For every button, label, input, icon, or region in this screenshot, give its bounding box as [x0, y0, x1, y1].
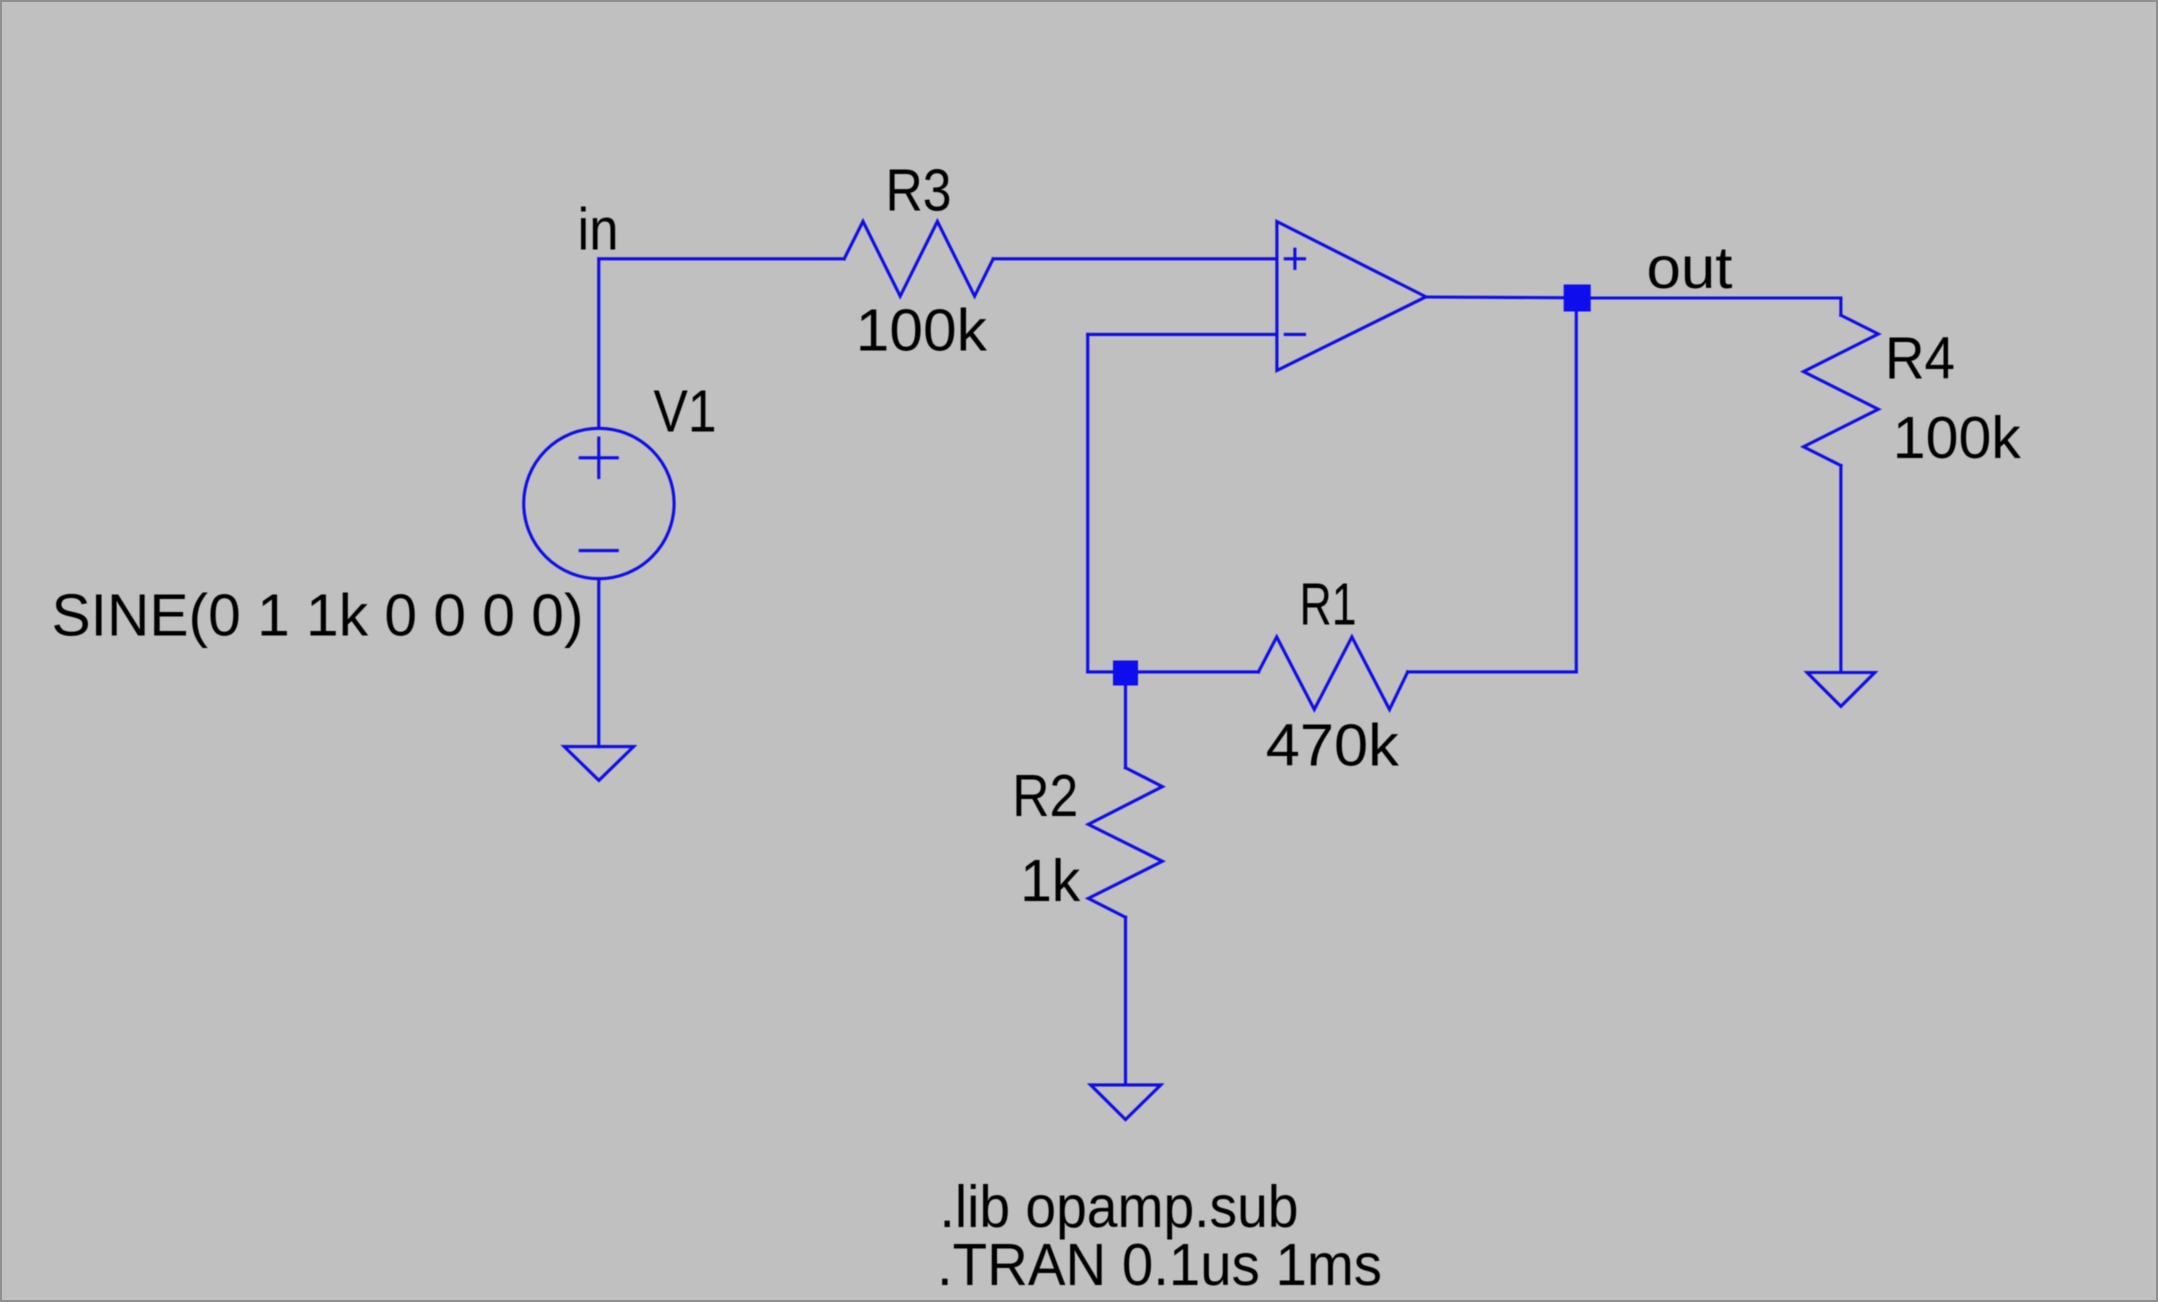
svg-text:out: out — [1647, 234, 1733, 301]
node out junction square — [1564, 285, 1591, 312]
svg-text:1k: 1k — [1020, 847, 1080, 914]
wire node A down to R2 top — [1124, 673, 1127, 768]
op-amp - input marking — [1285, 333, 1304, 336]
wire V1 bottom to ground — [597, 579, 600, 747]
resistor R3 body — [844, 221, 993, 296]
wire R2 bottom to ground — [1124, 917, 1127, 1085]
wire R1 right lead to out vertical — [1408, 670, 1577, 673]
svg-text:R4: R4 — [1885, 324, 1955, 391]
wire op-amp output to out node — [1426, 295, 1576, 299]
ground (below R2) — [1091, 1085, 1161, 1120]
wire R3 to op-amp + input — [993, 257, 1277, 260]
wire in horizontal (node in to R3 left lead) — [599, 257, 844, 260]
svg-text:R2: R2 — [1012, 762, 1078, 829]
wire in vertical (node in down to V1 top) — [597, 259, 600, 429]
wire R4 bottom to ground — [1839, 466, 1842, 673]
svg-text:SINE(0 1 1k 0 0 0 0): SINE(0 1 1k 0 0 0 0) — [52, 582, 584, 649]
svg-text:R1: R1 — [1300, 570, 1357, 637]
svg-text:.TRAN 0.1us 1ms: .TRAN 0.1us 1ms — [937, 1231, 1382, 1298]
op-amp + input marking — [1285, 257, 1304, 260]
wire feedback to node A — [1088, 670, 1259, 673]
svg-text:R3: R3 — [886, 157, 952, 224]
svg-text:470k: 470k — [1266, 711, 1399, 778]
V1 minus sign — [580, 549, 617, 552]
svg-text:in: in — [578, 195, 619, 262]
wire out vertical (out node down to R1) — [1575, 298, 1578, 672]
resistor R1 body — [1259, 637, 1408, 710]
wire op-amp inverting input — [1088, 333, 1277, 336]
V1 plus sign — [580, 456, 617, 459]
node A junction square — [1113, 661, 1138, 686]
op-amp U1 triangle — [1277, 222, 1426, 371]
ground (below V1) — [564, 747, 633, 781]
wire R4 top lead — [1839, 298, 1842, 315]
resistor R2 body — [1088, 768, 1162, 918]
voltage source V1 circle — [524, 428, 674, 578]
svg-text:100k: 100k — [1893, 404, 2021, 471]
svg-text:V1: V1 — [654, 377, 717, 444]
ground (below R4) — [1807, 673, 1875, 707]
svg-text:100k: 100k — [856, 297, 987, 364]
wire feedback vertical — [1086, 334, 1089, 672]
wire out node to R4 top corner — [1576, 296, 1841, 299]
resistor R4 body — [1804, 315, 1879, 465]
